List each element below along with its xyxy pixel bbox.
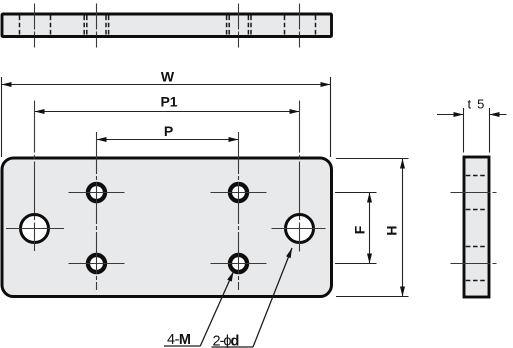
svg-text:H: H — [384, 225, 400, 235]
svg-text:P: P — [164, 123, 173, 139]
svg-text:W: W — [161, 69, 175, 85]
svg-text:F: F — [352, 225, 368, 234]
svg-text:2-ϕd: 2-ϕd — [213, 333, 239, 348]
svg-text:4-M: 4-M — [167, 332, 191, 348]
svg-text:t 5: t 5 — [467, 97, 485, 112]
svg-text:P1: P1 — [160, 94, 177, 110]
